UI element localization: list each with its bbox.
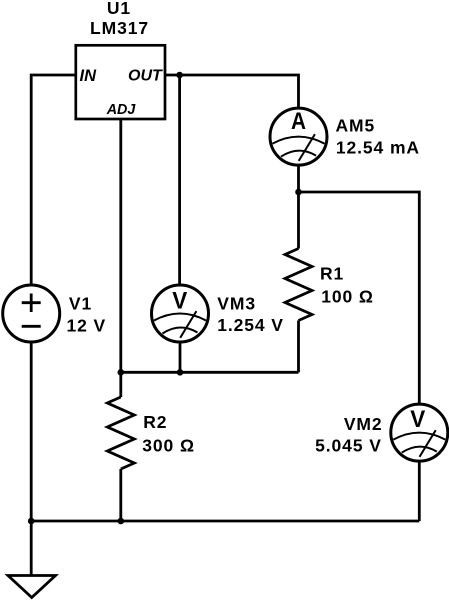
wire AM5 bottom to junction — [297, 166, 300, 192]
wire ground stem — [30, 521, 33, 576]
svg-text:AM5: AM5 — [336, 116, 376, 136]
svg-text:A: A — [291, 108, 306, 135]
svg-text:ADJ: ADJ — [106, 102, 137, 118]
wire ADJ pin down — [119, 119, 122, 372]
svg-text:12 V: 12 V — [67, 316, 107, 336]
node R2-ground junction — [118, 518, 125, 525]
svg-text:V: V — [410, 406, 425, 433]
svg-text:OUT: OUT — [128, 68, 163, 85]
svg-text:5.045 V: 5.045 V — [315, 435, 382, 455]
wire OUT pin to AM5 top — [165, 75, 299, 109]
IC U1 (LM317 voltage regulator box) — [76, 45, 165, 119]
node VM3-ADJ junction — [177, 369, 184, 376]
svg-text:VM2: VM2 — [344, 414, 383, 434]
svg-text:V: V — [172, 287, 187, 314]
resistor R2 — [107, 397, 134, 469]
node V1-ground junction — [28, 518, 35, 525]
svg-text:100 Ω: 100 Ω — [321, 287, 374, 307]
svg-text:12.54 mA: 12.54 mA — [336, 137, 420, 157]
svg-text:R2: R2 — [143, 412, 167, 432]
wire junction to VM2 top — [299, 192, 420, 404]
node ADJ-R2 junction — [118, 369, 125, 376]
voltmeter VM2 — [391, 404, 448, 461]
wire ADJ rail horizontal — [121, 371, 299, 374]
resistor R1 — [285, 249, 312, 321]
ammeter AM5 — [270, 108, 327, 165]
wire VM2 bottom to ground rail — [418, 461, 421, 521]
node AM5-R1-VM2 junction — [295, 189, 302, 196]
node OUT-VM3 junction — [176, 72, 183, 79]
svg-text:LM317: LM317 — [90, 18, 149, 38]
wire IN pin to V1 top — [31, 75, 76, 285]
svg-text:R1: R1 — [320, 264, 344, 284]
voltage source V1 — [3, 285, 60, 342]
svg-text:IN: IN — [80, 67, 98, 85]
wire bottom ground rail — [31, 520, 419, 523]
wire R2 bottom to ground rail — [119, 469, 122, 521]
svg-text:VM3: VM3 — [217, 293, 256, 313]
svg-text:U1: U1 — [107, 0, 131, 18]
ground — [8, 576, 56, 598]
wire V1 bottom to ground rail — [30, 342, 33, 521]
wire VM3 branch from OUT net — [178, 75, 181, 285]
wire ADJ rail to R2 top — [119, 372, 122, 397]
svg-text:1.254 V: 1.254 V — [217, 315, 284, 335]
wire VM3 bottom to ADJ rail — [179, 342, 182, 372]
wire junction to R1 top — [297, 192, 300, 249]
wire R1 bottom to ADJ rail — [297, 321, 300, 373]
svg-text:300 Ω: 300 Ω — [142, 435, 195, 455]
svg-text:V1: V1 — [69, 293, 92, 313]
voltmeter VM3 — [152, 285, 209, 342]
